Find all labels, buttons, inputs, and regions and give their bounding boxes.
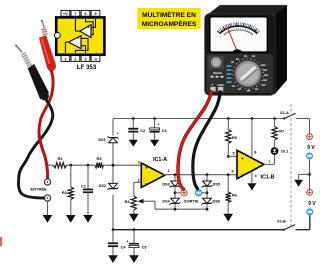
multimeter body (205, 5, 287, 95)
wire pin 8 from rail (251, 117, 254, 156)
battery B2 + terminal (307, 190, 313, 196)
node output to DS3 (174, 173, 177, 176)
svg-text:DS2: DS2 (99, 184, 106, 188)
svg-text:1: 1 (168, 169, 170, 173)
node R7 junction (273, 117, 276, 120)
svg-text:MICROAMPÈRES: MICROAMPÈRES (142, 19, 197, 28)
multimeter rotary selector dial (227, 56, 269, 92)
node R5 top junction (227, 117, 230, 120)
title label MULTIMETRE EN MICROAMPERES (137, 8, 200, 29)
svg-text:+: + (158, 123, 160, 127)
red probe wire lower segment (39, 135, 47, 179)
ground battery midpoint (294, 174, 303, 186)
ENTREE input terminal - (44, 195, 50, 201)
node DS3/DS4 junction (174, 187, 181, 198)
ground below C4 (108, 247, 118, 263)
black meter lead to SORTIE - (193, 90, 221, 189)
node C5 junction (133, 228, 136, 231)
svg-text:-V: -V (94, 56, 98, 61)
SORTIE terminal - (195, 190, 202, 197)
svg-text:+: + (145, 165, 148, 170)
ground below C2 (129, 133, 138, 147)
svg-text:DS4: DS4 (162, 200, 170, 204)
node C2 junction (132, 117, 135, 120)
node C4 junction (112, 228, 115, 231)
node pin5 junction (227, 155, 230, 158)
svg-text:IC1-A: IC1-A (153, 157, 167, 163)
scan artifact left edge (0, 237, 2, 246)
svg-text:R2: R2 (62, 190, 68, 195)
svg-text:+: + (78, 37, 80, 41)
resistor R6 (226, 175, 237, 203)
svg-text:R1: R1 (57, 156, 63, 161)
capacitor C4 (108, 230, 126, 250)
multimeter dial window (210, 17, 268, 52)
red probe wire to ENTREE (39, 70, 53, 179)
node DS4 to bus (174, 208, 177, 211)
svg-text:9 V: 9 V (308, 201, 316, 207)
ground below R2 (66, 200, 76, 223)
svg-text:R5: R5 (232, 136, 237, 140)
multimeter labels and terminals (210, 71, 224, 92)
multimeter needle (226, 24, 243, 52)
svg-text:R3: R3 (96, 156, 102, 161)
op-amp IC1-A (141, 157, 167, 187)
svg-text:5: 5 (232, 152, 234, 156)
capacitor C1 (81, 165, 93, 193)
svg-text:Switch: Switch (213, 71, 222, 75)
svg-text:+: + (117, 132, 119, 136)
capacitor C2 (128, 119, 145, 133)
dashed gang link S1 (290, 104, 292, 229)
svg-text:R6: R6 (232, 194, 237, 198)
resistor R3 (95, 156, 104, 168)
svg-text:DS1: DS1 (98, 138, 105, 142)
node C1 junction (87, 164, 90, 167)
wire pin2 to R4 (134, 182, 142, 196)
svg-text:8: 8 (254, 151, 256, 155)
op-amp IC1-B (237, 150, 275, 180)
svg-text:+: + (88, 26, 90, 30)
wire pin 7 output to DL1 (264, 155, 275, 165)
diode DS6 (202, 198, 220, 209)
ground below C3 (150, 133, 159, 147)
capacitor C5 (126, 230, 146, 250)
svg-text:SORTIE: SORTIE (184, 199, 199, 204)
svg-text:DL1: DL1 (281, 150, 288, 154)
diode DS4 (162, 198, 180, 209)
node R2 junction (69, 164, 72, 167)
battery B1 - terminal (306, 153, 312, 159)
ground below C5 (129, 248, 139, 263)
black test probe (15, 45, 49, 101)
node DS6 to bus (206, 208, 209, 211)
node DS5/DS6 junction (202, 187, 208, 198)
svg-text:+: + (126, 239, 128, 243)
svg-text:DS3: DS3 (162, 182, 169, 186)
capacitor C3 (150, 119, 167, 133)
wire left vertical branch DS1/DS2 (112, 119, 114, 230)
ground below R6 (223, 203, 233, 222)
wire +V top rail (113, 119, 310, 134)
node output to DS5 (206, 173, 209, 176)
resistor R7 (272, 119, 284, 148)
svg-text:7: 7 (268, 160, 270, 164)
feedback wire DS4/DS6 to R4 (138, 199, 155, 209)
diode DS1 (98, 132, 118, 143)
svg-text:9 V: 9 V (307, 145, 315, 151)
svg-text:C2: C2 (140, 129, 145, 133)
svg-text:ENTRÉE: ENTRÉE (31, 187, 48, 192)
svg-text:+V: +V (63, 11, 68, 16)
switch S1-B (277, 219, 295, 230)
black probe wire to ENTREE (18, 98, 52, 198)
svg-text:C3: C3 (162, 129, 167, 133)
node DS1/DS2 junction on input line (112, 164, 115, 167)
switch S1-A (280, 111, 295, 120)
multimeter lower panel (207, 54, 274, 93)
ground below C1 (83, 193, 93, 223)
ground below ENTREE (43, 201, 53, 223)
svg-text:S1-B: S1-B (277, 219, 286, 223)
ENTREE input terminal + (44, 179, 50, 185)
node C3 junction (153, 117, 156, 120)
diode DS2 (99, 183, 119, 190)
battery B2 - terminal (307, 209, 313, 215)
wire battery midpoint (299, 159, 311, 189)
wire input line (48, 165, 142, 179)
svg-text:LF 353: LF 353 (77, 64, 97, 71)
svg-text:S1-A: S1-A (280, 111, 289, 115)
resistor R1 (54, 156, 67, 168)
node R6 junction (227, 173, 230, 176)
ground below R4 (129, 210, 139, 222)
svg-text:C1: C1 (81, 183, 87, 188)
svg-text:MULTIMÈTRE EN: MULTIMÈTRE EN (142, 10, 196, 19)
wire bottom rail (113, 215, 310, 230)
wire IC1-A output (163, 174, 237, 176)
wire diode bottom bus (155, 208, 207, 210)
diode DS5 (202, 175, 220, 188)
svg-text:DS6: DS6 (213, 200, 220, 204)
LED DL1 (271, 146, 289, 155)
diode DS3 (162, 175, 180, 188)
wire pin5 (228, 155, 237, 157)
svg-text:6: 6 (231, 170, 233, 174)
resistor R4 (125, 196, 137, 210)
svg-text:C5: C5 (142, 245, 147, 249)
SORTIE terminal + (181, 190, 187, 196)
resistor R2 (62, 165, 74, 199)
red meter lead to SORTIE + (178, 90, 212, 190)
resistor R5 (226, 119, 237, 157)
svg-text:R7: R7 (279, 129, 284, 133)
op-amp IC package LF353 (55, 10, 105, 61)
red test probe (39, 20, 56, 71)
svg-text:DS5: DS5 (213, 182, 220, 186)
battery B1 + terminal (307, 134, 313, 140)
svg-text:+: + (241, 156, 244, 161)
svg-text:3: 3 (138, 161, 140, 165)
svg-text:IC1-B: IC1-B (261, 174, 275, 180)
pin 4 ground (247, 171, 256, 190)
multimeter range knob small (209, 56, 224, 69)
